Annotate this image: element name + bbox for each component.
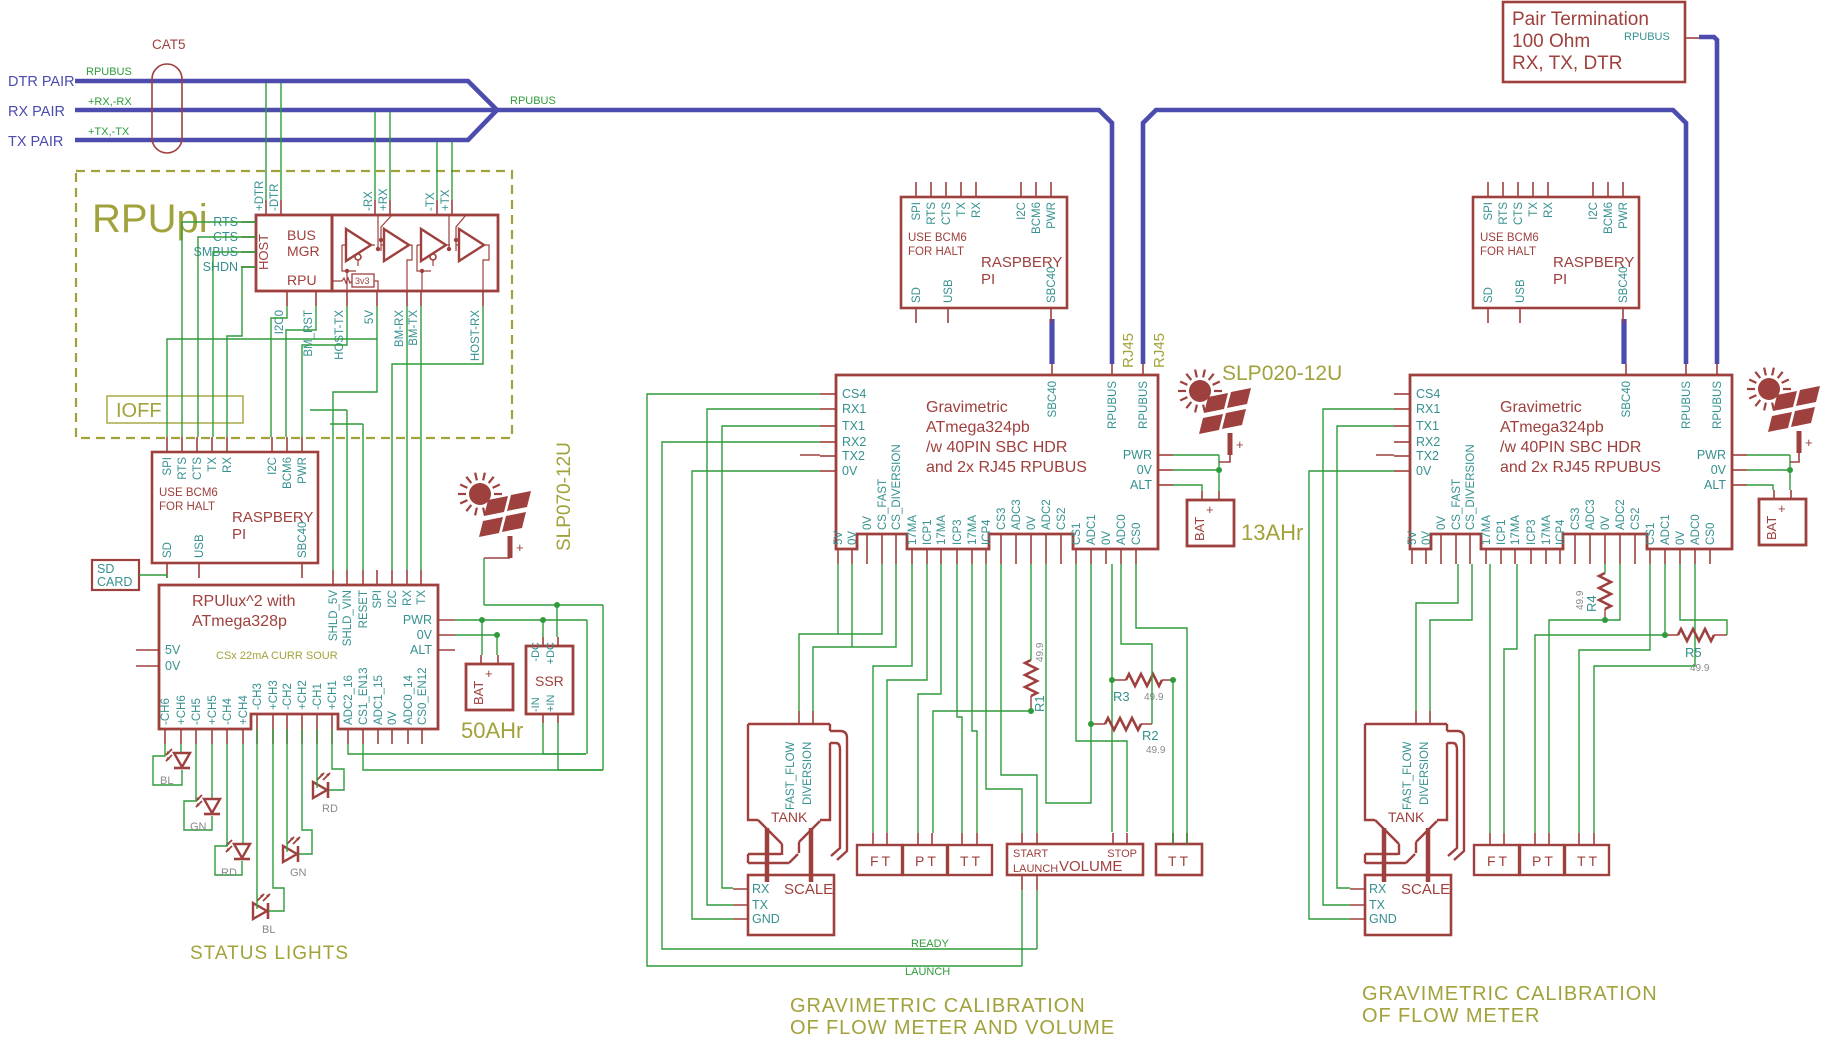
svg-text:SLP020-12U: SLP020-12U [1222,362,1342,385]
svg-text:+DC: +DC [545,642,557,664]
switch TT aux middle [1156,844,1202,875]
relay SSR [526,646,573,714]
wire [455,619,587,621]
wire [310,410,347,570]
wire [972,564,977,833]
svg-text:Pair Termination: Pair Termination [1512,9,1649,30]
resistor R5 [1678,629,1714,641]
junction [1170,677,1176,683]
svg-text:MGR: MGR [287,243,320,259]
wire [851,564,853,647]
svg-text:SHLD_VIN: SHLD_VIN [342,590,354,646]
svg-text:RPU: RPU [287,272,317,288]
svg-text:OF FLOW METER AND VOLUME: OF FLOW METER AND VOLUME [790,1017,1115,1039]
svg-text:SHLD_5V: SHLD_5V [328,590,340,641]
wire [1172,680,1174,844]
resistor R4 [1599,573,1611,609]
wire [558,723,603,770]
svg-text:BL: BL [262,924,275,936]
svg-text:+CH2: +CH2 [297,680,309,710]
svg-text:ADC2_16: ADC2_16 [343,675,355,725]
solar panel SLP020-12U [1178,370,1251,455]
wire [455,634,497,636]
wire [139,575,167,578]
wire [392,306,483,570]
ic U7 gravimetric atmega324pb right [1394,364,1747,564]
wire bus RX pair [75,108,497,113]
wire [1309,471,1394,919]
wire [1747,454,1790,456]
wire [1594,564,1695,833]
svg-text:RD: RD [221,867,237,879]
switch START STOP LAUNCH VOLUME [1007,844,1143,875]
wire [1680,564,1727,635]
pin SHDN [241,266,256,268]
svg-text:HOST-TX: HOST-TX [334,310,346,360]
buffer amp A2 [384,229,409,261]
battery BAT right [1759,490,1806,545]
wire net -TX [436,142,438,200]
svg-text:-CH4: -CH4 [222,698,234,725]
module frame RPUpi [76,171,512,438]
wire [1504,564,1517,833]
svg-text:RJ45: RJ45 [1151,333,1168,368]
wire [363,744,603,770]
svg-text:PWR: PWR [403,613,432,627]
wire bus RPUBUS second run [1143,110,1686,364]
wire [662,442,1037,949]
wire [271,306,287,437]
svg-text:STATUS LIGHTS: STATUS LIGHTS [190,943,349,964]
svg-text:+RX: +RX [378,188,390,211]
wire [1218,455,1220,491]
junction [1787,467,1793,473]
wire bus SBC40 link middle [1049,319,1054,364]
wire [1136,564,1187,844]
pin -CH2 [286,714,288,744]
svg-text:SD: SD [97,562,114,576]
svg-text:RPUBUS: RPUBUS [510,95,556,107]
buffer amp A1 [346,229,371,261]
battery BAT 13AHr [1187,491,1234,546]
led LED6 BL [253,894,270,919]
wire bus RPUBUS termination run [1699,37,1717,364]
svg-text:CS0_EN12: CS0_EN12 [417,667,429,725]
junction [494,632,500,638]
pin HOST-TX [346,291,348,306]
wire [1173,485,1202,491]
svg-text:RD: RD [322,803,338,815]
wire bus DTR pair [75,81,497,110]
svg-text:HOST: HOST [256,234,271,270]
svg-text:CSx 22mA CURR SOUR: CSx 22mA CURR SOUR [216,650,338,662]
junction [1088,721,1094,727]
buffer amp A4 [459,229,484,261]
pin RESET [362,570,364,585]
svg-text:49.9: 49.9 [1146,745,1166,756]
wire [813,564,896,711]
svg-text:100 Ohm: 100 Ohm [1512,31,1590,52]
wire [180,744,182,752]
pin -CH3 [256,714,258,744]
svg-text:-DTR: -DTR [269,184,281,211]
svg-text:-CH2: -CH2 [282,683,294,710]
svg-text:BM_RST: BM_RST [303,310,315,357]
buffer output wiring [407,245,489,291]
svg-text:R5: R5 [1685,645,1702,660]
svg-text:GN: GN [290,867,307,879]
wire net +DTR [265,83,267,200]
svg-text:R2: R2 [1142,728,1159,743]
pin -CH6 [164,729,166,744]
wire [1173,454,1219,456]
svg-text:R1: R1 [1032,695,1047,712]
wire net +RX [389,112,391,200]
buffer internal wiring left pair [342,215,392,291]
wire [167,339,377,437]
wire bus TX pair [75,110,497,140]
svg-text:+DTR: +DTR [254,181,266,211]
ic U6 raspberry pi right [1473,182,1639,323]
wire [1076,564,1127,832]
pin 0V [391,729,393,744]
junction [1662,632,1668,638]
svg-text:+RX,-RX: +RX,-RX [88,96,132,108]
resistor R3 [1126,674,1162,686]
pin RX [406,570,408,585]
inverter bubble A3 [430,254,436,260]
wire [184,744,212,830]
wire [933,711,1031,833]
buffer amp A3 [421,229,446,261]
wire [211,744,213,798]
svg-text:BL: BL [160,775,173,787]
svg-text:13AHr: 13AHr [1241,520,1303,545]
mech TANK SCALE buttons right [1350,711,1609,935]
svg-text:+TX,-TX: +TX,-TX [88,126,130,138]
wire [1186,833,1188,844]
svg-text:ATmega328p: ATmega328p [192,613,287,630]
solar panel SLP070-12U [458,473,531,558]
svg-text:0V: 0V [417,628,433,642]
wire [1579,564,1650,833]
svg-text:49.9: 49.9 [1144,692,1164,703]
wire [286,729,288,852]
ic U3 RPUlux^2 ATmega328p [159,585,438,729]
wire [1323,409,1394,905]
svg-text:SHDN: SHDN [203,260,238,274]
wire [153,744,182,785]
pin RTS [241,221,256,223]
wire [1172,833,1174,844]
svg-text:ADC1_15: ADC1_15 [373,675,385,725]
junction [479,617,485,623]
pin SHLD_5V [332,570,334,585]
svg-text:+IN: +IN [545,695,557,712]
svg-text:TX: TX [416,590,428,605]
svg-text:49.9: 49.9 [1035,642,1046,662]
wire [484,604,603,606]
svg-text:LAUNCH: LAUNCH [1013,863,1058,875]
wire bus SBC40 link right [1621,319,1626,364]
svg-text:RJ45: RJ45 [1120,333,1137,368]
ic U-BUSMGR bus manager [256,215,332,291]
wire [483,558,485,605]
pin -CH4 [226,729,228,744]
wire [542,620,544,637]
cable CAT5 [152,64,182,153]
wire [299,729,312,854]
ic U4 raspberry pi middle [901,182,1067,323]
svg-text:+CH5: +CH5 [207,695,219,725]
svg-text:RX: RX [402,590,414,606]
svg-text:I2C0: I2C0 [274,310,286,334]
svg-text:GRAVIMETRIC CALIBRATION: GRAVIMETRIC CALIBRATION [790,995,1086,1017]
wire [722,426,820,888]
wire [1747,469,1790,471]
svg-text:IOFF: IOFF [116,400,162,422]
svg-text:READY: READY [911,938,950,950]
svg-text:-RX: -RX [363,191,375,211]
svg-text:R4: R4 [1584,595,1599,612]
svg-text:-CH6: -CH6 [160,698,172,725]
pin PWR [438,619,455,621]
wire [1121,564,1152,724]
junction [1602,617,1608,623]
svg-text:0V: 0V [165,659,181,673]
pin CS0_EN12 [421,729,423,744]
wire [198,237,256,437]
svg-text:TX PAIR: TX PAIR [8,134,63,150]
svg-text:RESET: RESET [358,590,370,628]
wire net +TX [451,142,453,200]
pin BM_RST [315,291,317,306]
svg-text:RX, TX, DTR: RX, TX, DTR [1512,53,1623,74]
wire [1416,564,1458,711]
svg-text:TT: TT [1168,853,1191,869]
svg-text:3v3: 3v3 [355,276,370,286]
wire [1535,564,1665,833]
wire [420,306,422,570]
svg-text:0V: 0V [387,711,399,725]
wire [1430,564,1472,711]
wire [692,471,820,919]
wire [269,729,284,911]
led LED4 GN [283,837,300,862]
ic U2 raspberry pi left [152,437,318,578]
wire [918,564,941,833]
buffer internal wiring right pair [417,215,466,291]
wire [316,729,318,788]
svg-text:-CH3: -CH3 [252,683,264,710]
pin 0V [438,634,455,636]
svg-text:GN: GN [190,821,207,833]
wire [182,222,256,437]
wire [496,635,498,655]
svg-text:CS1_EN13: CS1_EN13 [358,667,370,725]
svg-text:VOLUME: VOLUME [1059,858,1122,875]
svg-text:OF FLOW METER: OF FLOW METER [1362,1005,1540,1027]
ic U-BUFFERS rs485 buffers [332,215,498,291]
svg-text:RPUpi: RPUpi [92,197,208,241]
svg-text:ADC0_14: ADC0_14 [403,675,415,725]
wire [1604,564,1606,573]
svg-text:-IN: -IN [530,697,542,712]
svg-text:RPUlux^2 with: RPUlux^2 with [192,593,296,610]
wire net -DTR [280,83,282,200]
pin SMBUS [241,251,256,253]
svg-text:START: START [1013,848,1048,860]
svg-text:BM-TX: BM-TX [408,310,420,346]
module SD CARD [92,560,139,590]
svg-text:BUS: BUS [287,227,316,243]
svg-text:SLP070-12U: SLP070-12U [554,442,575,551]
pin CTS [241,236,256,238]
junction [540,617,546,623]
wire [329,729,344,790]
junction [1109,677,1115,683]
wire [1789,455,1791,490]
svg-text:CARD: CARD [97,575,132,589]
svg-text:I2C: I2C [387,590,399,608]
wire [586,620,588,754]
wire [215,744,242,875]
wire [1337,426,1394,888]
svg-text:SPI: SPI [372,590,384,609]
wire [799,564,882,711]
pin +CH3 [272,714,274,744]
pin ADC2_16 [347,729,349,744]
svg-text:+TX: +TX [440,189,452,211]
pin ADC1_15 [377,729,379,744]
pin 5V [376,291,378,306]
wire net -RX [374,112,376,200]
wire [1036,890,1038,949]
pin TX [420,570,422,585]
wire [406,306,408,570]
junction [1216,467,1222,473]
pin CS1_EN13 [362,729,364,744]
svg-text:+CH6: +CH6 [176,695,188,725]
junction [1028,708,1034,714]
wire [543,723,586,754]
wire [1021,890,1023,966]
wire [481,620,483,655]
wire [242,744,244,843]
resistor R1 [1025,660,1037,696]
svg-text:49.9: 49.9 [1575,590,1586,610]
svg-text:ALT: ALT [410,643,432,657]
svg-text:RPUBUS: RPUBUS [86,66,132,78]
led LED2 GN [196,795,220,814]
svg-text:RPUBUS: RPUBUS [1624,31,1670,43]
wire [286,306,316,437]
svg-text:49.9: 49.9 [1690,663,1710,674]
svg-text:RX PAIR: RX PAIR [8,104,65,120]
solar panel right [1747,368,1820,453]
resistor R2 [1105,718,1141,730]
wire [1489,564,1491,833]
mech TANK SCALE buttons middle [733,711,992,935]
battery BAT 50AHr [466,655,513,710]
svg-text:50AHr: 50AHr [461,718,523,743]
pin BM-TX [420,291,422,306]
terminator Pair Termination [1503,2,1685,82]
pin 5V [136,649,159,651]
pin I2C [391,570,393,585]
wire [1030,564,1032,660]
wire [707,409,820,905]
pin 0V [136,665,159,667]
pin +CH5 [211,729,213,744]
svg-text:BM-RX: BM-RX [394,310,406,347]
wire [302,306,347,437]
junction [554,602,560,608]
wire [873,564,912,833]
svg-text:5V: 5V [364,310,376,324]
wire [1747,485,1773,490]
pin +CH6 [180,729,182,744]
pin ALT [438,649,455,651]
wire [602,605,604,770]
led LED5 RD [313,773,330,798]
inverter bubble A1 [355,254,361,260]
pin I2C0 [286,291,288,306]
svg-text:+CH1: +CH1 [327,680,339,710]
wire [213,252,256,437]
wire [837,564,839,634]
wire [1173,469,1219,471]
svg-text:+CH4: +CH4 [238,695,250,725]
svg-text:-CH5: -CH5 [191,698,203,725]
svg-text:SSR: SSR [535,673,564,689]
svg-text:CAT5: CAT5 [152,37,186,52]
led LED1 BL [166,749,190,768]
svg-text:5V: 5V [165,643,181,657]
svg-text:HOST-RX: HOST-RX [470,310,482,361]
led LED3 RD [226,840,250,859]
svg-text:-DC: -DC [530,642,542,662]
pin +CH2 [301,714,303,744]
wire [1046,564,1091,803]
wire [887,564,927,833]
pin ADC0_14 [407,729,409,744]
pin SPI [376,570,378,585]
wire [957,564,962,833]
svg-text:LAUNCH: LAUNCH [905,966,950,978]
net frame IOFF [107,396,243,423]
pin BM-RX [406,291,408,306]
wire [348,744,586,754]
wire [647,394,1022,966]
pin SHLD_VIN [346,570,348,585]
wire [1001,564,1037,833]
svg-text:-CH1: -CH1 [312,683,324,710]
wire [256,729,258,909]
wire [1111,564,1113,832]
svg-text:DTR PAIR: DTR PAIR [8,74,75,90]
wire [330,424,363,570]
svg-text:+CH3: +CH3 [268,680,280,710]
wire [1549,564,1620,833]
wire [556,605,558,637]
wire bus RPUBUS main run [495,110,1112,364]
svg-text:GRAVIMETRIC CALIBRATION: GRAVIMETRIC CALIBRATION [1362,983,1658,1005]
pin +CH1 [331,714,333,744]
wire [986,564,1022,833]
pin HOST-RX [482,291,484,306]
svg-text:-TX: -TX [425,192,437,211]
